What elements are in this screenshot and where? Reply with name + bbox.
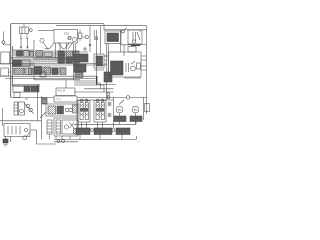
blob small — [95, 37, 98, 41]
box bottom-left battery — [4, 124, 30, 137]
wire verticals right — [114, 97, 144, 128]
wire vertical pair x73-75 — [74, 44, 76, 80]
wire vertical pair x94 — [93, 30, 95, 40]
wire top bus 2 — [56, 25, 147, 27]
wire under B2 — [121, 44, 142, 46]
pump symbol right of engine box — [78, 30, 88, 41]
gauge M2 — [132, 106, 139, 113]
wire top bus — [11, 23, 104, 25]
gauge base boxes — [114, 116, 126, 122]
wire left edge lower — [0, 120, 42, 122]
wire bottom bus 2 — [54, 141, 78, 143]
ground symbol — [3, 137, 8, 147]
hopper funnel 1 — [45, 43, 55, 49]
wire vertical x124 — [123, 45, 125, 57]
wire left vertical bus — [10, 24, 12, 98]
wire mid top line — [38, 30, 54, 32]
spring right of S2 — [108, 102, 111, 117]
svg-text:––: –– — [137, 141, 140, 144]
arrow leader — [40, 112, 46, 118]
box wide label — [54, 96, 77, 102]
wire vertical x37 — [37, 84, 39, 120]
svg-text:≈≈≈≈: ≈≈≈≈ — [56, 98, 62, 101]
wire vertical x34 — [33, 40, 35, 80]
wire left vertical bus 2 — [11, 46, 13, 86]
wire stubs bottom row — [80, 135, 122, 140]
gauge circles left — [24, 103, 34, 114]
svg-text:≡≡≡: ≡≡≡ — [64, 32, 70, 36]
small box under pump pair — [75, 73, 83, 78]
block x104 lower — [104, 72, 112, 82]
wire long bus y97.4 — [11, 96, 147, 98]
box formula label — [56, 88, 75, 96]
wires right block to bus — [104, 56, 147, 70]
wire around stacks — [74, 100, 136, 135]
wire center vertical bus — [106, 43, 108, 100]
wire engine drops — [60, 43, 67, 50]
valve block x94 — [94, 54, 107, 68]
staircase wires center — [74, 81, 104, 85]
valve row A center — [36, 51, 79, 57]
gauge M1 — [116, 106, 123, 113]
wire LB1 link — [9, 57, 12, 59]
valve stack S2 — [94, 99, 106, 122]
pump block center-right — [74, 54, 88, 72]
valve block center (upper) — [46, 104, 78, 116]
wire top step — [104, 24, 147, 30]
hopper funnel 2 — [58, 43, 70, 49]
box left white LB1 — [1, 52, 10, 64]
pump legs with check valves — [12, 39, 34, 51]
valve row B — [13, 58, 80, 67]
valve symbol far-left edge — [2, 32, 11, 46]
node circle on bus — [126, 96, 129, 99]
wire center buses — [11, 58, 80, 59]
node circle — [23, 132, 30, 140]
control block right — [109, 52, 142, 77]
wire vertical x100 — [99, 26, 101, 54]
valve left-mid V36 — [14, 102, 25, 115]
box engine top-center — [54, 30, 78, 44]
wire mid-left lines — [12, 84, 40, 85]
svg-text:M: M — [118, 108, 121, 112]
valve row A left — [17, 51, 34, 57]
wire right-center extras — [74, 52, 141, 78]
valve row C — [14, 67, 66, 75]
pump P1 top-left — [20, 24, 33, 39]
wire long bus y63.5 — [0, 64, 107, 65]
pump unit B1 top-right — [105, 31, 121, 44]
wire gauge stubs — [120, 113, 136, 124]
flat boxes bottom row — [76, 128, 130, 135]
ladder rect — [47, 120, 52, 139]
thick segment x96 — [96, 76, 98, 85]
control box bottom-center — [54, 118, 78, 136]
wire vertical x96 — [96, 30, 98, 76]
wire connectors — [56, 136, 70, 139]
svg-text:·····: ····· — [58, 94, 62, 96]
node circles — [107, 93, 110, 96]
valve B2 top-right — [128, 29, 142, 44]
node dot — [89, 44, 91, 46]
node circle 2 — [122, 28, 127, 33]
wire L-path — [30, 130, 56, 144]
small valve mid-center — [42, 98, 47, 104]
small box under — [40, 72, 46, 77]
wire vertical x120 — [120, 30, 122, 52]
wire stack base stubs — [82, 122, 103, 128]
small node circles — [57, 140, 64, 143]
wire bottom of center band — [0, 76, 96, 80]
small box — [14, 93, 20, 98]
dark dash — [131, 44, 140, 46]
node circle small — [84, 48, 86, 50]
wire vertical x55 — [55, 43, 57, 58]
wire vertical x41 — [41, 96, 43, 139]
box mid-left — [13, 86, 39, 92]
valve stack S1 — [78, 99, 90, 122]
svg-text:36: 36 — [25, 98, 28, 101]
wire bottom bus — [54, 136, 137, 139]
small box top right — [128, 47, 136, 53]
box left LB2 — [1, 68, 9, 76]
texture underlay central band — [35, 51, 79, 63]
wire stub — [10, 137, 12, 142]
wire vertical x90 — [89, 26, 91, 52]
leader diagonal — [119, 100, 124, 105]
box right edge mid — [145, 104, 150, 112]
label circle 44 — [68, 37, 77, 49]
label circle 40 — [40, 38, 48, 49]
wire top right corner — [128, 44, 147, 46]
wire label box drop — [65, 80, 67, 88]
svg-text:M: M — [134, 108, 137, 112]
wire right vertical bus — [146, 26, 148, 114]
svg-text:F=L·Ø: F=L·Ø — [58, 89, 65, 93]
small box in control block right — [137, 63, 141, 69]
